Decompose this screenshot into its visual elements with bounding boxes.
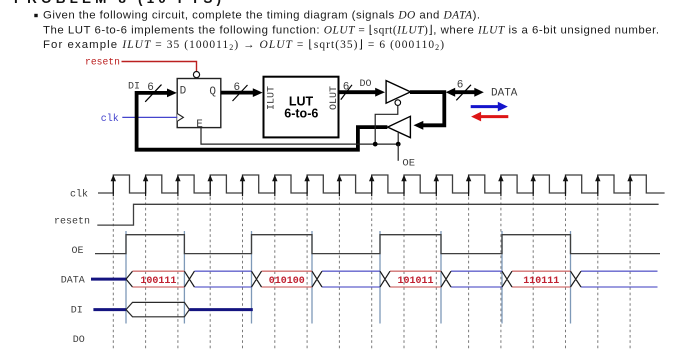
svg-text:Given the following circuit, c: Given the following circuit, complete th… [43,10,480,22]
DATA X transitions [184,271,581,287]
bus slash (DATA) [456,85,471,101]
svg-text:DI: DI [128,81,140,92]
svg-text:OE: OE [402,158,415,170]
svg-text:For example ILUT = 35 (1000112: For example ILUT = 35 (1000112) → OLUT =… [43,39,444,52]
DATA bus segment 2 [194,271,251,287]
bus slash (Q bus) [233,85,248,101]
svg-text:clk: clk [70,188,88,200]
svg-text:6: 6 [343,81,350,93]
clk rising edge arrows [113,180,630,196]
bus wire: feedback path from lower buffer to D input [137,93,388,150]
wire resetn (red) [122,62,197,72]
svg-text:clk: clk [101,113,119,125]
svg-text:resetn: resetn [54,217,90,228]
tri-state buffer U3 (output) [386,81,410,104]
junction node dot 2 [396,142,401,147]
DATA bus segment 7 [512,271,571,287]
arrowhead into ILUT [253,88,263,97]
signal DI: navy line left [93,308,126,311]
signal DI: navy line right [189,308,252,311]
dashed gridlines at clk rising edges [113,197,630,350]
svg-text:OLUT: OLUT [329,86,340,110]
DATA opening taper [126,271,133,287]
arrowhead into D [167,89,177,98]
wire clk (blue) [122,116,177,118]
svg-text:100111: 100111 [140,276,176,287]
arrowhead into buffer [375,88,385,97]
svg-text:010100: 010100 [269,276,305,287]
wire E to OE node [201,128,398,145]
signal DATA: idle navy line [91,278,126,281]
DATA bus segment 5 [390,271,441,287]
DATA bus segment 1 [133,271,185,287]
bidirectional DATA bus arrow [453,90,478,94]
svg-text:101011: 101011 [397,276,433,287]
reset bubble on flip-flop [193,72,199,78]
svg-text:DATA: DATA [491,88,518,100]
DATA bus segment 6 [451,271,502,287]
flip-flop U1 box [177,79,221,128]
svg-text:resetn: resetn [85,57,120,68]
bus wire U3 output to DATA node and down to U4 input [410,92,444,125]
svg-text:ILUT: ILUT [267,86,278,110]
svg-text:6: 6 [147,82,154,94]
DATA bus segment 3 [262,271,313,287]
blue vertical lines at OE transitions [126,231,571,324]
bus wire Q to ILUT [221,91,255,95]
signal resetn trace [97,204,658,225]
clk edge triangle [177,114,183,122]
svg-text:110111: 110111 [523,276,559,287]
enable bubble U3 [395,100,401,106]
wire from U3 bubble to OE node [375,105,398,144]
bus slash (DO bus) [341,85,352,100]
junction node dot 1 [373,142,378,147]
DATA bus segment 8 [581,271,658,287]
bus slash (DI) [145,85,161,102]
svg-text:Q: Q [209,86,216,98]
svg-text:DATA: DATA [61,276,85,287]
wire U4 enable [397,133,399,144]
svg-text:DO: DO [360,79,372,90]
wire OE stub [397,144,399,161]
svg-text:D: D [180,86,187,98]
svg-text:DI: DI [71,306,83,317]
svg-text:6-to-6: 6-to-6 [284,106,318,120]
signal OE trace [95,235,660,254]
LUT U2 box [264,77,339,138]
svg-text:E: E [196,119,203,131]
svg-text:The LUT 6-to-6 implements the: The LUT 6-to-6 implements the following … [43,24,659,36]
signal clk trace [98,175,665,193]
DI hexagon [126,302,189,316]
blue arrow (data in direction) [471,105,499,108]
svg-text:DO: DO [73,335,85,346]
svg-text:OE: OE [71,246,83,257]
red arrow (data out direction) [480,115,508,118]
buffer U4 (input, points left) [388,116,411,137]
svg-text:6: 6 [234,82,241,94]
bus wire OLUT to buffer (DO) [339,90,378,94]
bullet [34,14,37,17]
DATA bus segment 4 [322,271,380,287]
svg-text:6: 6 [457,80,464,92]
arrowhead into U4 input [414,121,424,130]
